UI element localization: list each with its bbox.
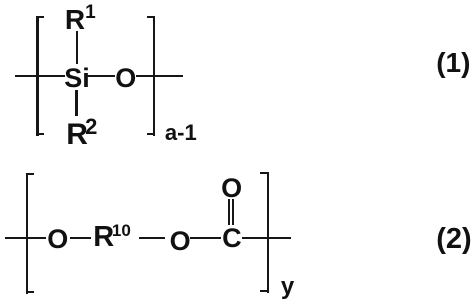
- formula 2 left bond stub: [5, 237, 46, 239]
- superscript 2 of R2: [85, 116, 97, 138]
- bond R10 to O: [139, 237, 165, 239]
- atom O formula 1: [115, 65, 136, 92]
- formula 1 left bracket: [36, 16, 38, 136]
- atom O second of formula 2: [170, 228, 191, 255]
- formula 2 left bracket: [26, 173, 28, 294]
- formula label (2): [436, 225, 471, 254]
- subscript a-1: [165, 122, 197, 144]
- formula 1 right bracket top serif: [147, 16, 155, 18]
- substituent R1: [65, 6, 85, 34]
- atom Si: [64, 65, 90, 92]
- bond O to right bracket and stub: [136, 75, 183, 77]
- group R10: [93, 223, 114, 252]
- bond Si to O: [85, 75, 116, 77]
- formula label (1): [436, 49, 470, 77]
- subscript y: [281, 275, 294, 299]
- formula 2 left bracket bottom serif: [26, 291, 34, 293]
- bond R1 to Si: [76, 31, 78, 64]
- bond O to R10: [70, 237, 92, 239]
- substituent R2: [66, 120, 88, 150]
- atom C carbonyl: [222, 225, 242, 252]
- formula 1 left bracket bottom serif: [36, 133, 44, 135]
- bond C to right bracket and stub: [242, 237, 292, 239]
- atom O first of formula 2: [47, 226, 68, 253]
- bond O to C: [190, 237, 221, 239]
- formula 1 right bracket: [153, 16, 155, 136]
- formula 2 right bracket top serif: [260, 172, 269, 174]
- atom O carbonyl: [221, 175, 242, 202]
- formula 1 right bracket bottom serif: [147, 133, 155, 135]
- superscript 10 of R10: [112, 222, 131, 239]
- double bond C=O right line: [232, 199, 234, 226]
- formula 2 left bracket top serif: [26, 173, 34, 175]
- superscript 1 of R1: [85, 3, 96, 22]
- formula 2 right bracket bottom serif: [260, 290, 269, 292]
- double bond C=O left line: [228, 199, 230, 226]
- formula 1 left bracket top serif: [36, 16, 44, 18]
- formula 2 right bracket: [267, 172, 269, 293]
- bond Si to R2: [75, 90, 77, 116]
- formula 1 left bond stub: [15, 75, 65, 77]
